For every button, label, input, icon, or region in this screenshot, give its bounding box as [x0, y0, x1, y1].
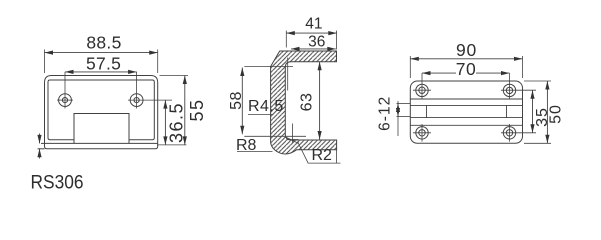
hole B centerline [509, 73, 511, 99]
label 70 [456, 71, 476, 77]
dim 6-12 line [397, 104, 399, 117]
svg-text:50: 50 [547, 104, 564, 124]
dim 36.5/55 extension bottom [157, 144, 186, 146]
top hole B inner [506, 87, 512, 93]
svg-text:6-12: 6-12 [376, 96, 393, 131]
bottom hole B horizontal centerline [501, 132, 536, 134]
svg-text:36: 36 [308, 34, 325, 51]
svg-text:58: 58 [228, 91, 245, 110]
top view slot line 2 [410, 104, 522, 106]
dim 90 line [410, 58, 522, 60]
hole left centerline horizontal [57, 99, 73, 101]
svg-text:55: 55 [187, 98, 207, 121]
dim 6-12 line overrun [397, 101, 399, 136]
top hole A inner [419, 87, 425, 93]
bottom hole B inner [506, 130, 512, 136]
svg-text:36.5: 36.5 [167, 102, 187, 143]
dim 36 line [291, 48, 336, 50]
dim 50 line [546, 81, 548, 143]
svg-text:57.5: 57.5 [86, 53, 121, 73]
dim 58 line [241, 68, 243, 135]
R2 right edge extension [336, 150, 338, 163]
top view slot line 4 [410, 124, 522, 126]
small dim arrow bottom [39, 149, 41, 159]
hole left inner [62, 98, 67, 103]
hole B horizontal centerline [501, 89, 536, 91]
hole right inner [134, 98, 139, 103]
R4.5 leader underline [248, 113, 273, 115]
front view bottom plate line [41, 142, 158, 144]
svg-text:41: 41 [305, 16, 322, 33]
dim 70 line [422, 72, 510, 74]
bottom hole B outer [503, 127, 515, 139]
svg-text:90: 90 [456, 40, 477, 60]
dim 36.5 line [164, 100, 166, 145]
dim 41 line [286, 32, 337, 34]
dim 58 extension top [244, 65, 293, 67]
dim 6-12 extension bottom [397, 116, 411, 118]
front view outer outline [45, 76, 158, 149]
top view slot line 3 [410, 117, 522, 119]
top view tick left [426, 105, 428, 117]
section profile hatched [271, 51, 337, 154]
dim 41/36 extension right [336, 31, 338, 50]
hole right centerline vertical [136, 72, 138, 109]
dim 50 extension top [524, 80, 551, 82]
dim 63 line [319, 62, 321, 140]
dim 88.5 extension left [44, 50, 46, 74]
bottom hole A crosshair [413, 124, 431, 142]
hole left outer [59, 94, 72, 107]
dim 58 extension bottom [244, 135, 306, 137]
R2 leader [298, 142, 341, 164]
hole right centerline horizontal [128, 99, 172, 101]
dim 41 extension left [285, 31, 287, 48]
front view glass notch [74, 114, 129, 144]
hole right outer [130, 94, 143, 107]
svg-text:88.5: 88.5 [86, 33, 121, 53]
hole left centerline vertical [64, 72, 66, 109]
dim 50 extension bottom [524, 142, 551, 144]
bottom hole A outer [416, 127, 428, 139]
R2 center mark cross [286, 124, 298, 144]
top view outer outline [410, 81, 522, 143]
dim 90 extension left [409, 56, 411, 78]
top view tick right [506, 105, 508, 117]
R4.5 center mark [287, 58, 289, 91]
dim 35 line [532, 90, 534, 133]
hole A centerline [421, 73, 423, 99]
dim 90 extension right [522, 56, 524, 78]
svg-text:RS306: RS306 [31, 172, 84, 194]
top hole A outer [416, 84, 428, 96]
small dim arrow top [39, 134, 41, 144]
dim 55 extension top [160, 75, 189, 77]
dim 57.5 line [65, 71, 137, 73]
dim 88.5 extension right [157, 50, 159, 74]
svg-text:63: 63 [299, 93, 316, 112]
svg-text:70: 70 [456, 59, 476, 79]
bottom hole A inner [419, 130, 425, 136]
front view bottom edge extension [38, 148, 45, 150]
R8 leader underline [237, 151, 273, 153]
svg-text:R4.5: R4.5 [248, 98, 284, 115]
top view slot line 1 [410, 98, 522, 100]
svg-text:R2: R2 [312, 147, 333, 164]
top hole B outer [503, 84, 515, 96]
dim 6-12 extension top [397, 103, 411, 105]
hole A horizontal centerline [413, 89, 431, 91]
dim 88.5 line [45, 52, 158, 54]
dim 55 line [184, 76, 186, 145]
front view inner face outline [48, 80, 154, 140]
bottom hole B crosshair [509, 124, 511, 142]
svg-text:R8: R8 [236, 137, 257, 154]
